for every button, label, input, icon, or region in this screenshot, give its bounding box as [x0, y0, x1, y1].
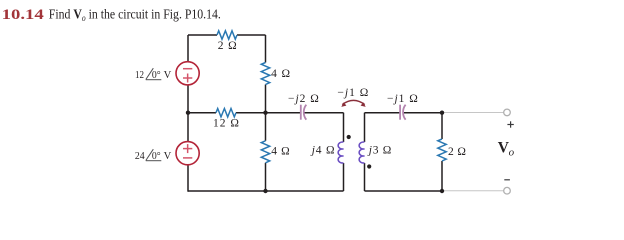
- svg-text:−j2 Ω: −j2 Ω: [288, 93, 320, 105]
- svg-text:2 Ω: 2 Ω: [218, 40, 238, 52]
- svg-text:j4 Ω: j4 Ω: [310, 144, 336, 156]
- svg-text:−j1 Ω: −j1 Ω: [387, 93, 419, 105]
- svg-text:2 Ω: 2 Ω: [448, 146, 466, 158]
- svg-text:12: 12: [135, 70, 144, 81]
- svg-text:4 Ω: 4 Ω: [271, 68, 291, 80]
- svg-text:10.14: 10.14: [2, 6, 45, 23]
- svg-text:12 Ω: 12 Ω: [213, 118, 240, 130]
- svg-text:V: V: [164, 151, 172, 162]
- svg-text:24: 24: [135, 151, 145, 162]
- svg-text:−j1 Ω: −j1 Ω: [337, 87, 369, 99]
- svg-text:V: V: [164, 70, 172, 81]
- svg-text:4 Ω: 4 Ω: [271, 146, 290, 158]
- svg-text:Find Vo in the circuit in Fig.: Find Vo in the circuit in Fig. P10.14.: [49, 5, 221, 23]
- svg-text:o: o: [509, 147, 515, 159]
- svg-text:j3 Ω: j3 Ω: [367, 145, 392, 157]
